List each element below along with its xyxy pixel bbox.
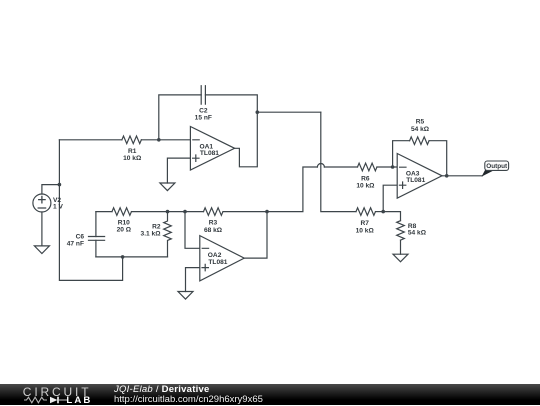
resistor R5	[410, 137, 429, 145]
resistor R10	[112, 208, 131, 216]
wire hop over vertical	[317, 164, 324, 168]
svg-text:R3: R3	[209, 220, 218, 227]
svg-text:10 kΩ: 10 kΩ	[123, 155, 142, 162]
wire OA2 plus to ground	[186, 268, 200, 292]
svg-text:68 kΩ: 68 kΩ	[204, 227, 223, 234]
wire R7 to junction	[376, 211, 384, 213]
svg-text:TL081: TL081	[208, 259, 227, 266]
wire lower loop bottom	[96, 256, 168, 258]
svg-text:3.1 kΩ: 3.1 kΩ	[141, 231, 162, 238]
wire to R1	[59, 139, 122, 141]
svg-text:TL081: TL081	[406, 177, 425, 184]
ground under OA1	[160, 183, 175, 191]
node V2 rail junction	[58, 183, 62, 187]
resistor R2	[164, 212, 172, 257]
CircuitLab logo LAB	[66, 396, 92, 406]
wire V2 top to rail	[42, 185, 60, 194]
ground under V2	[34, 246, 49, 254]
footer title	[114, 385, 210, 395]
capacitor C6	[89, 212, 105, 257]
svg-text:R7: R7	[360, 220, 369, 227]
wire OA1 plus to ground	[167, 158, 190, 183]
svg-text:1 V: 1 V	[53, 203, 63, 210]
svg-text:TL081: TL081	[200, 150, 219, 157]
footer url	[114, 395, 263, 405]
svg-text:47 nF: 47 nF	[67, 240, 84, 247]
wire R6 to OA3 minus	[377, 166, 397, 168]
wire lower loop left	[96, 211, 112, 213]
wire R1 to OA1 minus	[141, 139, 190, 141]
ground under OA2	[178, 292, 193, 300]
svg-text:R10: R10	[118, 219, 130, 226]
node output junction	[445, 174, 449, 178]
svg-text:Output: Output	[486, 163, 508, 170]
svg-text:R1: R1	[128, 148, 137, 155]
wire C2 right to OA1 output loop	[205, 95, 257, 167]
node OA3 minus junction	[391, 165, 395, 169]
wire R5 feedback	[393, 141, 410, 167]
node OA2 output junction	[265, 210, 269, 214]
svg-text:R2: R2	[152, 223, 161, 230]
capacitor C2	[201, 86, 205, 104]
wire OA2 output feedback	[244, 212, 267, 259]
output flag	[482, 161, 509, 177]
resistor R3	[204, 208, 223, 216]
node bottom rail junction	[121, 255, 125, 259]
footer bar	[0, 384, 540, 405]
wire left rail	[59, 140, 122, 281]
wire OA1 output to vertical	[257, 111, 321, 113]
node R1/C2 junction	[157, 138, 161, 142]
resistor R1	[122, 136, 141, 144]
CircuitLab logo resistor-diode	[23, 396, 68, 404]
svg-text:C2: C2	[199, 108, 208, 115]
svg-text:54 kΩ: 54 kΩ	[408, 230, 427, 237]
svg-text:15 nF: 15 nF	[195, 115, 212, 122]
voltage source V2	[33, 194, 51, 212]
resistor R6	[358, 163, 377, 171]
wire junction to OA3 plus	[383, 185, 397, 211]
op-amp OA2	[200, 236, 244, 281]
node R7/R8 junction	[381, 210, 385, 214]
op-amp OA1	[190, 127, 234, 171]
wire C2 feedback left/top	[159, 95, 201, 140]
resistor R7	[356, 208, 375, 216]
svg-text:10 kΩ: 10 kΩ	[356, 183, 375, 190]
wire R10 to R3	[132, 211, 204, 213]
op-amp OA3	[397, 154, 442, 199]
wire R5 to output	[429, 141, 447, 176]
wire R3 to corner up	[223, 167, 317, 212]
wire junction to R8	[383, 212, 400, 221]
resistor R8	[397, 221, 405, 240]
node OA1 output junction	[255, 110, 259, 114]
node R2 top	[166, 210, 170, 214]
wire OA3 output	[442, 175, 482, 177]
svg-text:20 Ω: 20 Ω	[117, 227, 132, 234]
svg-text:54 kΩ: 54 kΩ	[411, 126, 430, 133]
svg-text:R6: R6	[361, 175, 370, 182]
wire V2 bottom to ground	[41, 212, 43, 246]
svg-text:10 kΩ: 10 kΩ	[356, 227, 375, 234]
node OA2 minus branch	[183, 210, 187, 214]
wire R8 to ground	[400, 240, 402, 254]
svg-text:R5: R5	[416, 118, 425, 125]
wire OA1 signal down to R7	[321, 112, 356, 211]
CircuitLab logo CIRCUIT	[23, 386, 92, 398]
ground under R8	[393, 254, 408, 262]
wire OA2 minus branch	[185, 212, 200, 249]
wire hop to R6	[324, 166, 357, 168]
